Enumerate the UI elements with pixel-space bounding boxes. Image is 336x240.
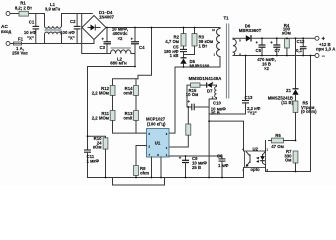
terminal top input <box>6 12 10 16</box>
resistor R14 <box>123 86 138 96</box>
svg-text:C10: C10 <box>213 101 221 106</box>
svg-text:4,7 Ом: 4,7 Ом <box>165 39 179 44</box>
wire sense loop <box>113 178 165 186</box>
wire R12-R11 link <box>112 96 114 111</box>
capacitor C10 <box>187 99 226 116</box>
capacitor C7 <box>270 38 280 55</box>
wire opto pin3 to ground <box>243 168 245 178</box>
svg-text:кОм: кОм <box>282 31 291 36</box>
svg-text:omit: omit <box>123 116 133 121</box>
svg-text:0,1: 0,1 <box>296 48 303 53</box>
label C6 C7 value <box>257 57 276 71</box>
wire -12V rail <box>233 55 315 57</box>
fuse F1 <box>12 37 28 56</box>
node plus rail ties <box>261 37 304 39</box>
svg-text:250 Vac: 250 Vac <box>12 51 28 56</box>
resistor R10 <box>93 136 108 150</box>
capacitor C11 <box>84 150 99 178</box>
svg-text:C6: C6 <box>256 48 262 53</box>
node drain D5 <box>183 66 185 68</box>
svg-text:C2: C2 <box>70 19 76 24</box>
resistor R8 <box>134 166 150 178</box>
node C10 left <box>187 106 189 108</box>
wire R10 top to left vertical <box>88 136 106 138</box>
resistor R13 <box>123 111 138 121</box>
svg-text:U1: U1 <box>155 141 161 146</box>
svg-text:C8: C8 <box>217 154 223 159</box>
svg-text:вход: вход <box>1 29 11 34</box>
svg-text:Z1: Z1 <box>286 88 292 93</box>
capacitor C3 electrolytic <box>100 28 112 54</box>
resistor R7 <box>284 149 298 172</box>
wire R10 bottom to ground <box>105 149 107 177</box>
svg-text:25 В: 25 В <box>211 111 220 116</box>
resistor R15 <box>186 83 206 107</box>
svg-text:1N4007: 1N4007 <box>99 15 115 20</box>
node R7 bottom <box>295 171 297 173</box>
svg-text:кОм: кОм <box>93 145 102 150</box>
svg-text:1 Вт: 1 Вт <box>199 44 208 49</box>
capacitor C12 <box>296 38 307 55</box>
wire VDD line from U1 pin1 <box>169 155 222 157</box>
label bulk caps 10uF 400V <box>112 27 128 42</box>
svg-text:×2: ×2 <box>264 66 270 71</box>
capacitor C2 <box>60 14 80 44</box>
svg-text:25 В: 25 В <box>192 165 201 170</box>
svg-text:2,2 МОм: 2,2 МОм <box>92 91 109 96</box>
node DC+ ties <box>106 27 195 29</box>
capacitor C1 <box>24 14 39 44</box>
wire aux winding down column <box>209 85 216 177</box>
node minus rail ties <box>245 55 312 57</box>
svg-text:×2: ×2 <box>118 36 124 41</box>
node neg bus junction <box>134 66 136 68</box>
svg-text:U2: U2 <box>253 146 259 151</box>
node aux opto tee <box>208 120 210 122</box>
inductor L2 <box>110 48 131 66</box>
terminal bottom input <box>6 42 10 46</box>
svg-text:C12: C12 <box>297 39 305 44</box>
svg-text:F1: F1 <box>18 37 24 42</box>
wire R14-R13 link <box>135 96 137 111</box>
wire Z1 column from +12V rail <box>295 38 297 88</box>
svg-text:680 мГн: 680 мГн <box>110 61 127 66</box>
wire bottom right return <box>266 56 311 172</box>
resistor R2 <box>165 28 186 47</box>
diode D7 <box>207 83 217 94</box>
resistor R5 <box>293 101 317 141</box>
svg-text:3,9 мГн: 3,9 мГн <box>45 7 61 12</box>
svg-text:8,2; 2 Вт: 8,2; 2 Вт <box>15 6 32 11</box>
wire drain riser to U1 <box>169 67 175 133</box>
wire DC- from AC rail through left corner to neg bus <box>82 14 107 54</box>
AC input label <box>1 24 11 34</box>
capacitor C13 Y2 <box>209 56 261 116</box>
svg-text:1 мкФ: 1 мкФ <box>87 159 100 164</box>
svg-text:C3: C3 <box>100 45 106 50</box>
svg-text:opto: opto <box>250 167 260 172</box>
svg-text:2,2 МОм: 2,2 МОм <box>92 116 109 121</box>
wire startup riser from DC+ rail <box>138 28 152 79</box>
svg-text:при 1,3 А: при 1,3 А <box>316 46 335 51</box>
svg-text:C13: C13 <box>245 95 253 100</box>
bridge rectifier D1-D4 <box>82 10 115 39</box>
transformer T1 <box>212 16 242 100</box>
terminal +12V <box>315 36 335 51</box>
wire opto collector riser <box>209 121 243 151</box>
svg-text:ohm: ohm <box>140 171 149 176</box>
wire ground rail <box>88 177 244 179</box>
resistor R4 <box>282 23 291 56</box>
capacitor C9 <box>179 155 208 177</box>
wire divider bottoms to U1 pin <box>113 121 147 134</box>
svg-text:MBRS360T: MBRS360T <box>239 28 262 33</box>
svg-text:1 кВ: 1 кВ <box>170 53 179 58</box>
IC U1 MCP1027 <box>146 117 169 158</box>
svg-text:1 мФ: 1 мФ <box>218 163 229 168</box>
terminal minus <box>315 54 326 61</box>
svg-text:−: − <box>322 54 326 60</box>
capacitor C6 <box>255 38 265 55</box>
wire negative bus <box>107 54 135 67</box>
wire drain line <box>175 57 220 68</box>
svg-text:MURS160: MURS160 <box>190 64 210 69</box>
resistor R12 <box>92 86 115 96</box>
svg-text:Ом: Ом <box>285 158 292 163</box>
resistor R1 <box>15 1 32 16</box>
node R10 tap <box>87 135 89 137</box>
svg-text:D7: D7 <box>207 89 213 94</box>
wire DC+ rail <box>106 27 220 29</box>
svg-text:(11 В): (11 В) <box>281 100 293 105</box>
svg-text:C1: C1 <box>29 19 35 24</box>
capacitor C8 <box>217 154 229 178</box>
capacitor C4 electrolytic <box>131 28 146 54</box>
svg-text:10 Ом: 10 Ом <box>186 92 199 97</box>
wire AC bottom rail <box>10 40 94 44</box>
wire negative bus to left vertical <box>88 67 136 150</box>
wire U1 left pin2 to R8 <box>136 146 147 166</box>
svg-text:C4: C4 <box>139 45 145 50</box>
svg-text:T1: T1 <box>223 16 229 21</box>
wire U1 bottom stubs to ground <box>152 157 162 178</box>
svg-text:omit: omit <box>123 91 133 96</box>
svg-text:C7: C7 <box>275 48 281 53</box>
resistor R6 <box>269 133 296 149</box>
capacitor C5 <box>164 45 187 59</box>
svg-text:R6: R6 <box>275 133 281 138</box>
diode D5 MURS160 <box>180 58 210 69</box>
optocoupler U2 <box>242 141 268 173</box>
svg-text:"Y2": "Y2" <box>248 110 257 115</box>
zener Z1 MMSZ5241B <box>268 88 299 105</box>
svg-text:"X": "X" <box>68 35 75 40</box>
wire divider top line <box>113 79 139 86</box>
resistor R9 unlabeled <box>169 107 191 147</box>
node R6 R5 R7 <box>295 140 297 142</box>
resistor R11 <box>92 111 115 121</box>
svg-text:(0 ohm): (0 ohm) <box>301 109 317 114</box>
svg-text:47 Ом: 47 Ом <box>271 144 284 149</box>
resistor R3 <box>184 28 214 55</box>
svg-text:MMSD1N4148A: MMSD1N4148A <box>189 76 223 81</box>
inductor L1 common-mode choke <box>45 2 62 44</box>
diode D6 MBRS360T <box>233 24 262 42</box>
wire AC top rail <box>10 13 92 15</box>
svg-text:10: 10 <box>212 28 215 32</box>
wire +12V rail <box>251 37 315 39</box>
svg-text:"X": "X" <box>27 35 34 40</box>
svg-text:(100 кГц): (100 кГц) <box>147 122 166 127</box>
node ground ties <box>105 177 223 179</box>
node VDD C9 <box>185 155 187 157</box>
